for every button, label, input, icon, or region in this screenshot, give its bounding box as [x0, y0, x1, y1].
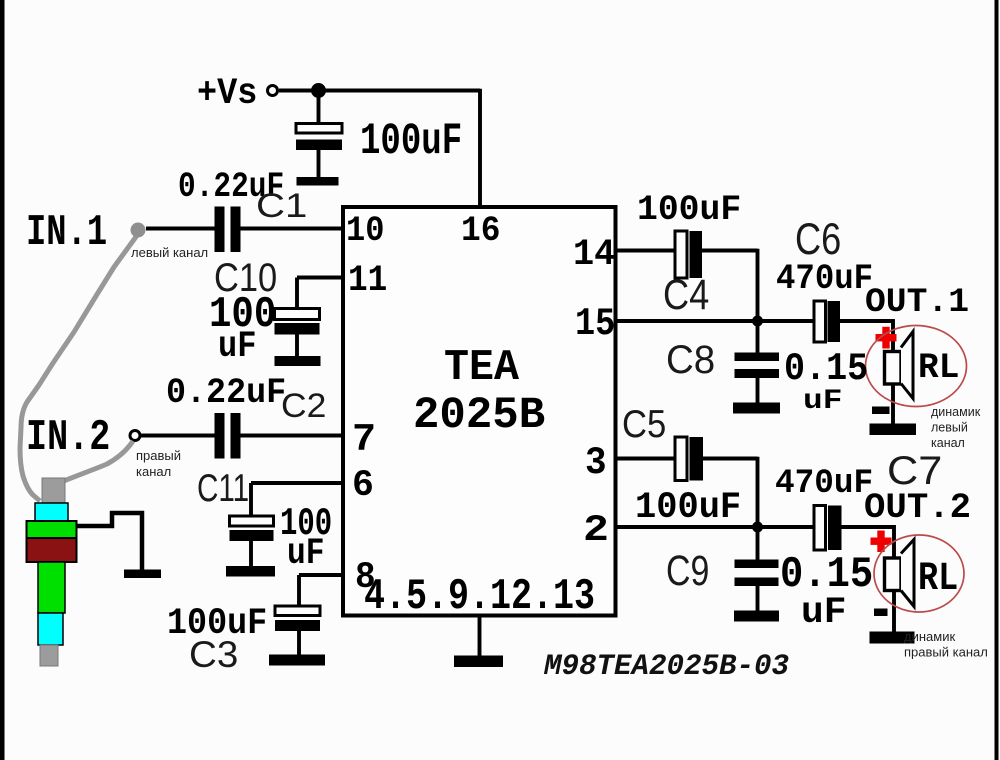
svg-text:470uF: 470uF	[776, 258, 873, 299]
svg-text:IN.2: IN.2	[26, 413, 110, 462]
svg-text:uF: uF	[803, 386, 842, 417]
svg-text:C1: C1	[256, 187, 307, 225]
svg-text:uF: uF	[801, 592, 846, 634]
svg-text:16: 16	[461, 210, 500, 251]
svg-text:3: 3	[585, 441, 607, 485]
svg-text:C9: C9	[666, 547, 709, 595]
svg-text:C2: C2	[281, 387, 326, 425]
svg-text:2: 2	[583, 510, 609, 552]
svg-text:правый канал: правый канал	[904, 645, 988, 660]
svg-text:C7: C7	[887, 449, 942, 493]
svg-text:100uF: 100uF	[637, 189, 741, 230]
svg-text:uF: uF	[218, 326, 256, 368]
svg-text:TEA: TEA	[444, 343, 519, 392]
svg-text:100uF: 100uF	[360, 117, 462, 167]
svg-text:C4: C4	[663, 271, 709, 319]
svg-text:uF: uF	[287, 533, 324, 575]
svg-text:6: 6	[352, 465, 374, 507]
svg-text:OUT.1: OUT.1	[865, 284, 969, 322]
svg-text:C8: C8	[666, 338, 715, 382]
svg-text:2025B: 2025B	[413, 391, 545, 441]
svg-text:C10: C10	[214, 256, 277, 300]
svg-text:OUT.2: OUT.2	[864, 487, 971, 528]
svg-text:левый канал: левый канал	[131, 245, 208, 260]
svg-text:M98TEA2025B-03: M98TEA2025B-03	[543, 649, 789, 683]
svg-text:RL: RL	[918, 347, 959, 388]
svg-text:динамик: динамик	[931, 405, 981, 419]
svg-text:470uF: 470uF	[775, 465, 873, 503]
svg-text:C5: C5	[622, 403, 666, 446]
svg-text:14: 14	[573, 234, 615, 276]
svg-text:0.15: 0.15	[784, 347, 868, 391]
svg-text:+Vs: +Vs	[197, 73, 257, 115]
svg-text:C3: C3	[189, 633, 238, 675]
svg-text:правый: правый	[136, 448, 181, 463]
svg-text:7: 7	[352, 418, 376, 462]
svg-text:10: 10	[346, 210, 384, 251]
svg-text:C6: C6	[795, 215, 841, 264]
svg-text:100uF: 100uF	[635, 487, 741, 529]
svg-text:4.5.9.12.13: 4.5.9.12.13	[364, 572, 595, 621]
svg-text:левый: левый	[931, 421, 968, 435]
svg-text:RL: RL	[918, 557, 958, 602]
svg-text:канал: канал	[136, 464, 171, 479]
svg-text:0.22uF: 0.22uF	[166, 372, 286, 413]
svg-text:C11: C11	[197, 467, 249, 510]
svg-text:канал: канал	[931, 436, 965, 450]
svg-text:IN.1: IN.1	[26, 208, 107, 257]
svg-text:11: 11	[348, 260, 387, 302]
svg-text:динамик: динамик	[904, 629, 955, 644]
svg-text:15: 15	[575, 302, 615, 346]
